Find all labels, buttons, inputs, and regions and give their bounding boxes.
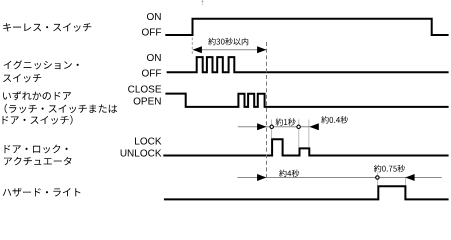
label スイッチ (line2) [3, 74, 41, 83]
lock dimension shaft [238, 126, 319, 128]
annotation 約4秒 [279, 170, 299, 177]
label キーレス・スイッチ [3, 23, 91, 32]
arrowhead hazard-dim right-pointing at dashed line [257, 174, 266, 181]
svg-text:LOCK: LOCK [134, 137, 162, 148]
30s dimension shaft [193, 49, 266, 51]
thin guide lock pulse2 fall x=308.9 [308, 120, 310, 148]
stray dotted mark top [202, 1, 204, 5]
svg-text:OFF: OFF [142, 69, 162, 80]
dimension dot lock pulse rise [270, 125, 273, 128]
svg-text:OFF: OFF [142, 28, 162, 39]
dotted guide at keyless rising edge x=192.3 [191, 38, 193, 54]
thin guide lock pulse rise x=271.6 [271, 120, 273, 139]
arrowhead 30s right [257, 46, 266, 53]
label ドア・スイッチ） [3, 115, 73, 125]
svg-text:CLOSE: CLOSE [128, 85, 162, 96]
waveform door latch/door switch: CLOSE->OPEN, 3 CLOSE pulses [165, 94, 448, 107]
label ドア・ロック・ [5, 145, 68, 154]
arrowhead lock-dim left-pointing at pulse2 fall [310, 123, 319, 130]
svg-text:UNLOCK: UNLOCK [120, 148, 162, 159]
annotation 約1秒 [276, 118, 296, 125]
thin guide hazard pulse fall x=405.4 [404, 178, 406, 186]
thin guide hazard pulse rise x=377.4 [376, 172, 378, 185]
label （ラッチ・スイッチまたは [5, 104, 118, 114]
dimension dot lock pulse2 rise [297, 125, 300, 128]
svg-text:ON: ON [147, 53, 162, 64]
waveform door lock actuator: LOCK pulse then short UNLOCK-side pulse [163, 139, 448, 155]
waveform keyless switch: OFF->ON at x=192.5, ON->OFF at x=431.7 [165, 19, 448, 35]
arrowhead hazard-dim left-pointing at pulse fall [405, 174, 414, 181]
svg-text:ON: ON [147, 12, 162, 23]
annotation 約30秒以内 [208, 38, 248, 45]
thin guide lock pulse2 rise x=298.8 [298, 120, 300, 148]
long dashed reference line x=266.5 [266, 42, 268, 181]
label アクチュエータ [4, 157, 72, 166]
waveform hazard light: one pulse [164, 186, 449, 199]
label ハザード・ライト [3, 188, 81, 197]
waveform ignition switch: 4 ON pulses [167, 57, 449, 72]
arrowhead 30s left [193, 46, 202, 53]
hazard dimension shaft [238, 177, 442, 179]
arrowhead lock-dim right-pointing at dashed line [257, 123, 266, 130]
dimension dot hazard pulse rise [376, 176, 379, 179]
label いずれかのドア [3, 91, 71, 100]
annotation 約0.4秒 [321, 116, 348, 123]
svg-text:OPEN: OPEN [133, 97, 161, 108]
annotation 約0.75秒 [374, 165, 405, 172]
label イグニッション・ [4, 60, 79, 69]
